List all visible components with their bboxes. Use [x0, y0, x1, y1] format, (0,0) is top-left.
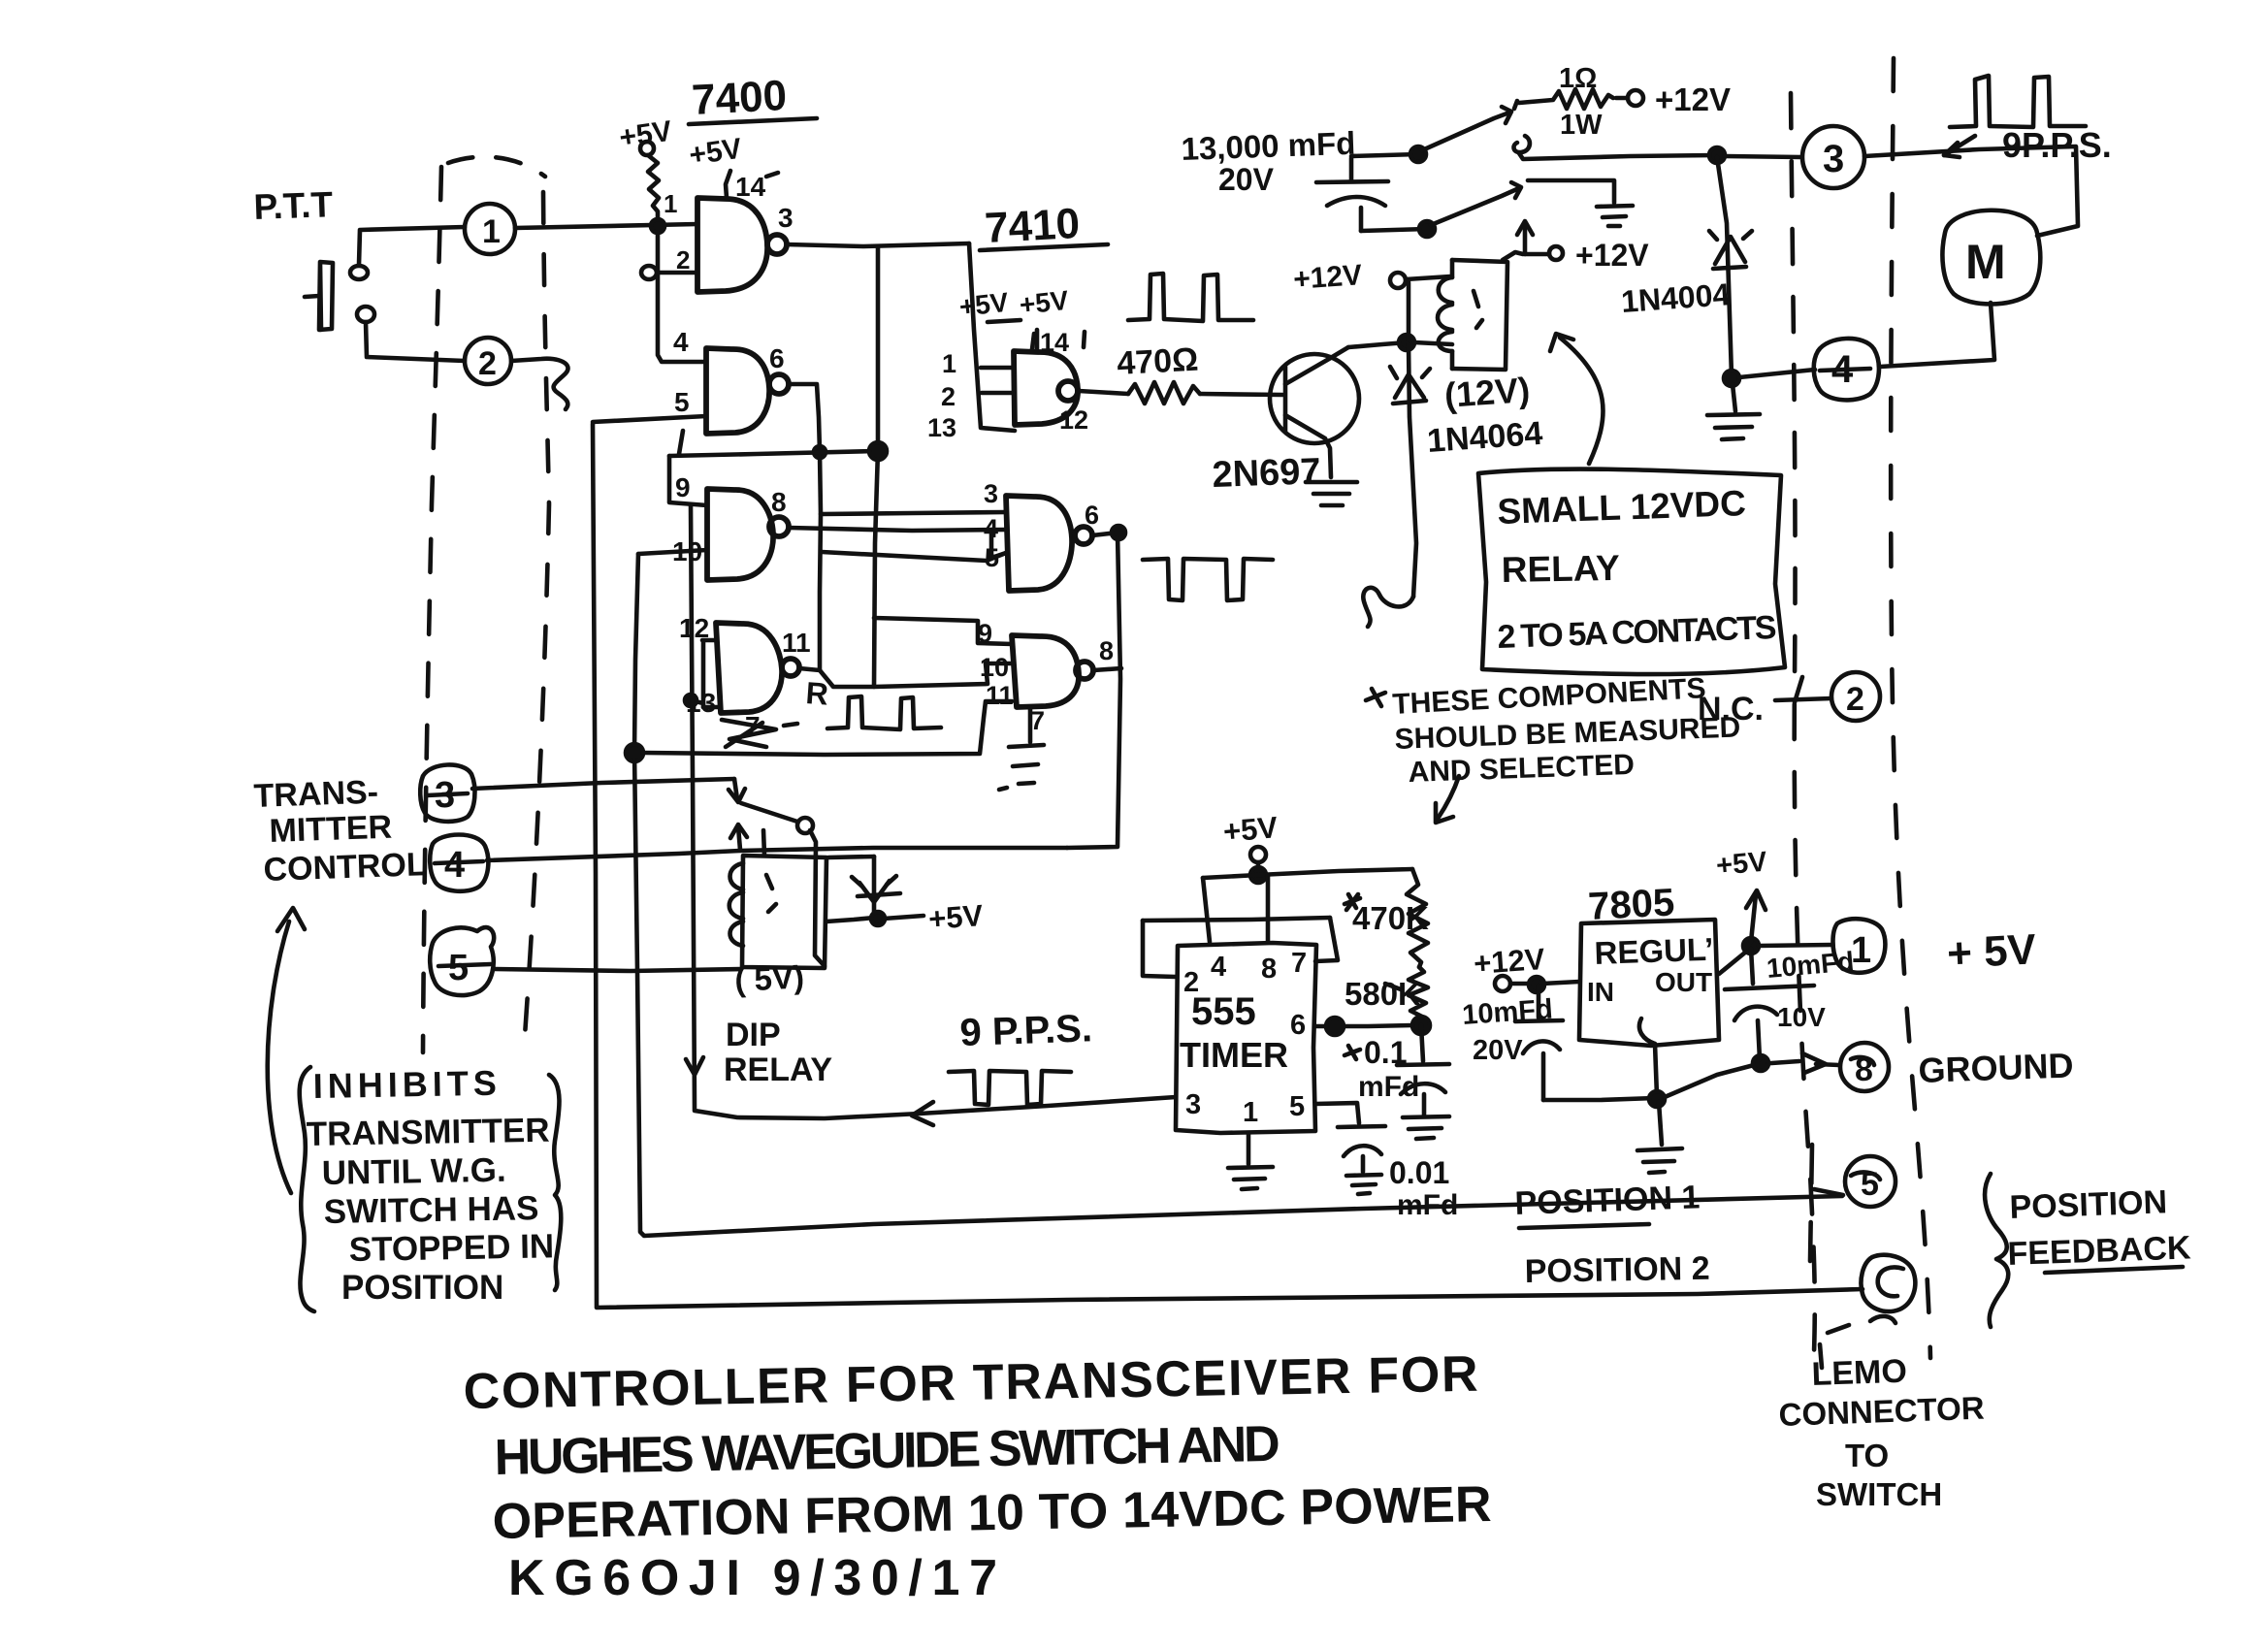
- svg-text:+5V: +5V: [927, 898, 985, 936]
- svg-text:SHOULD BE MEASURED: SHOULD BE MEASURED: [1394, 712, 1741, 756]
- INHIBITS note right brace: [549, 1075, 561, 1290]
- node pin1 junction: [651, 219, 664, 233]
- pin 5 wire and capacitor C5: [1315, 1103, 1385, 1194]
- wire circle3L to relay contact arrow: [472, 779, 745, 802]
- N.C. label and tick: [1698, 677, 1831, 727]
- svg-text:9: 9: [675, 472, 691, 502]
- coil bottom wire to node: [1414, 342, 1452, 344]
- POSITION 2 label: [1524, 1250, 1709, 1290]
- pin 11 output label: [782, 628, 811, 658]
- svg-text:POSITION 1: POSITION 1: [1514, 1179, 1701, 1222]
- svg-text:10mFd: 10mFd: [1461, 994, 1553, 1031]
- 9 P.P.S. label mid: [959, 1007, 1093, 1054]
- pin 6 output label: [769, 343, 785, 373]
- vertical A-out junction branch down: [869, 247, 887, 687]
- pin 10 label and lead: [638, 536, 707, 566]
- U2C output wire: [1093, 668, 1121, 670]
- svg-text:+5V: +5V: [617, 115, 673, 154]
- D input bracket: [685, 640, 719, 707]
- U2B pin labels: [984, 479, 1099, 572]
- wire dot to G pin 11: [643, 701, 1012, 755]
- 7410 label: [980, 200, 1108, 252]
- title line 1: [463, 1346, 1478, 1420]
- svg-text:4: 4: [673, 327, 689, 357]
- U1B output wire down to U2 pin3: [789, 384, 1006, 514]
- svg-text:8: 8: [1099, 636, 1114, 665]
- relay coil K1 (12V): [1438, 252, 1523, 370]
- connector pin circle 1 (right): [1833, 919, 1886, 973]
- resistor R4 470K: [1407, 869, 1428, 967]
- resistor R2 470ohm: [1128, 382, 1200, 404]
- top wire pins 4 8 to 470K: [1203, 869, 1412, 942]
- svg-text:8: 8: [771, 487, 787, 517]
- svg-text:POSITION: POSITION: [341, 1269, 503, 1307]
- wire circle5L to DIP relay coil bottom: [495, 969, 741, 971]
- 555 TIMER text: [1180, 990, 1288, 1075]
- svg-text:11: 11: [986, 681, 1014, 710]
- svg-text:( 5V): ( 5V): [733, 958, 804, 998]
- pushbutton switch S1: [305, 262, 374, 330]
- motor M1: [1942, 210, 2040, 305]
- svg-text:+5V: +5V: [687, 133, 743, 172]
- TRANS- MITTER CONTROL labels: [253, 774, 427, 889]
- left connector dashed top cap: [448, 157, 545, 177]
- connector pin circle 2 (left): [465, 338, 511, 384]
- 2N697 label: [1212, 451, 1321, 496]
- P.T.T label: [253, 184, 334, 227]
- INHIBITS note left brace: [300, 1067, 314, 1311]
- nand gate U2B (7410): [1006, 496, 1092, 591]
- svg-text:3: 3: [1185, 1089, 1201, 1120]
- mid pulse waveform: [1128, 274, 1253, 321]
- relay arm DIP: [741, 803, 813, 833]
- junction dot ground cap: [1753, 1055, 1768, 1071]
- svg-text:13,000 mFd: 13,000 mFd: [1181, 125, 1356, 167]
- wire C pin9 bracket to A-output node: [669, 451, 876, 505]
- svg-text:6: 6: [1085, 501, 1099, 530]
- svg-text:TO: TO: [1845, 1438, 1889, 1473]
- wire circle4L along y876 to U2B output vertical: [487, 848, 1067, 860]
- direction arrow on vertical: [686, 1057, 703, 1075]
- connector pin circle 4 (left): [430, 835, 488, 891]
- regulator U4 7805 box: [1579, 920, 1719, 1046]
- wire to connector 3: [1725, 156, 1801, 157]
- svg-text:+12V: +12V: [1292, 259, 1363, 296]
- 9 P.P.S. waveform top right: [1950, 76, 2086, 127]
- svg-text:mFd: mFd: [1397, 1189, 1458, 1221]
- ground wire to circle 8: [1665, 1053, 1839, 1097]
- svg-text:9: 9: [978, 619, 992, 648]
- right connector dashed line b: [1891, 58, 1930, 1358]
- U2B pin5 bracket: [991, 530, 1006, 558]
- svg-text:3: 3: [778, 203, 794, 233]
- dashes near circle 5 6: [1810, 1145, 1812, 1261]
- svg-text:+12V: +12V: [1655, 81, 1731, 117]
- wire arm pivot down right side of coil: [810, 830, 825, 966]
- svg-text:9 P.P.S.: 9 P.P.S.: [959, 1007, 1093, 1054]
- REGUL OUT IN texts: [1587, 931, 1714, 1007]
- pulse waveform near U1D: [827, 696, 941, 729]
- pin 1 ground: [1228, 1133, 1273, 1189]
- POSITION FEEDBACK labels: [2007, 1183, 2192, 1273]
- svg-text:INHIBITS: INHIBITS: [312, 1063, 502, 1106]
- svg-text:5: 5: [1289, 1091, 1305, 1122]
- svg-text:12: 12: [1059, 405, 1088, 435]
- U2C pin7 ground: [999, 706, 1045, 790]
- svg-text:6: 6: [1290, 1010, 1306, 1041]
- svg-text:14: 14: [735, 172, 766, 202]
- resistor R1 pull-up: [648, 155, 659, 221]
- arrow note to control: [268, 908, 305, 1193]
- svg-text:M: M: [1965, 235, 2006, 289]
- +5V big label: [1946, 925, 2038, 978]
- U2A output wire: [1079, 391, 1128, 394]
- svg-text:5: 5: [674, 387, 690, 417]
- connector pin circle 4 (right): [1814, 339, 1879, 400]
- pin 1 tick: [664, 189, 677, 218]
- connector pin circle 8 (right): [1840, 1043, 1889, 1091]
- svg-text:+5V: +5V: [1018, 285, 1070, 320]
- junction dot 555 vcc: [1250, 867, 1266, 883]
- arrow into circle 5: [1814, 1189, 1843, 1195]
- wire squiggle after pin 2: [511, 359, 567, 409]
- svg-text:+5V: +5V: [1222, 810, 1280, 849]
- svg-text:0.01: 0.01: [1389, 1155, 1449, 1190]
- pulse waveform mid (inverted): [949, 1071, 1071, 1105]
- 1 ohm 1W labels: [1559, 63, 1603, 141]
- nand gate U1B: [706, 348, 789, 434]
- wire diode node to connector 4: [1739, 370, 1815, 377]
- svg-text:MITTER: MITTER: [269, 809, 393, 850]
- connector pin circle 3 (right): [1802, 126, 1864, 188]
- svg-text:OPERATION FROM 10 TO 14VDC POW: OPERATION FROM 10 TO 14VDC POWER: [492, 1476, 1492, 1550]
- title line 3: [492, 1476, 1492, 1550]
- transistor Q1 2N697: [1270, 347, 1359, 477]
- pin 5 label and lead: [593, 387, 706, 454]
- pin 8 output label: [771, 487, 787, 517]
- svg-text:13: 13: [927, 413, 956, 442]
- svg-text:+5V: +5V: [1715, 846, 1769, 882]
- capacitor C4 0.1 mFd: [1397, 1025, 1449, 1139]
- +5V at diode bottom: [826, 898, 985, 936]
- svg-text:RELAY: RELAY: [724, 1051, 832, 1088]
- 7805 label: [1587, 881, 1675, 928]
- junction blob on B output vertical: [814, 446, 826, 458]
- svg-text:2: 2: [478, 345, 497, 382]
- 7400 label: [689, 72, 817, 124]
- svg-text:1: 1: [1243, 1097, 1258, 1128]
- +12V terminal after 1 ohm: [1616, 81, 1731, 117]
- title line 4: [508, 1550, 997, 1606]
- wire 555 pin3 to U1C pin9 vertical: [691, 505, 1176, 1118]
- +5V arrow above out: [1715, 846, 1769, 942]
- svg-text:RELAY: RELAY: [1501, 548, 1620, 590]
- diode D1 1N4004 column: [1709, 157, 1752, 376]
- svg-text:STOPPED IN: STOPPED IN: [348, 1227, 554, 1269]
- pulse waveform right of U2B: [1143, 559, 1273, 600]
- U2B output wire down: [1067, 526, 1125, 848]
- connector pin circle 2 (right): [1831, 672, 1880, 721]
- wire cap bottom to arm2 pivot: [1361, 229, 1427, 231]
- svg-text:CONTROL: CONTROL: [263, 846, 427, 889]
- diode LED across coil: [828, 857, 900, 916]
- connector pin circle 5 (left): [430, 927, 494, 995]
- arm 2 upper fixed contact to ground: [1528, 180, 1633, 226]
- +5V supply (pull-up): [617, 115, 673, 155]
- svg-text:+12V: +12V: [1575, 238, 1649, 273]
- DIP RELAY label: [724, 1017, 832, 1088]
- arrow up to relay arm: [730, 824, 747, 850]
- svg-text:SWITCH HAS: SWITCH HAS: [323, 1189, 538, 1231]
- capacitor C6 10mFd 20V: [1515, 986, 1563, 1100]
- +12V coil feed: [1292, 259, 1450, 340]
- INHIBITS note text: [306, 1063, 554, 1307]
- resistor R3 1 ohm: [1519, 89, 1613, 109]
- svg-text:2N697: 2N697: [1212, 451, 1321, 496]
- svg-text:2: 2: [941, 382, 956, 411]
- svg-text:CONNECTOR: CONNECTOR: [1778, 1390, 1985, 1433]
- svg-text:20V: 20V: [1473, 1035, 1523, 1066]
- svg-text:4: 4: [1211, 952, 1226, 983]
- svg-text:+5V: +5V: [957, 287, 1010, 322]
- direction arrow on motor wire: [1944, 136, 1975, 157]
- svg-text:OUT: OUT: [1655, 967, 1712, 997]
- U2C pin labels: [978, 619, 1114, 710]
- end squiggle: [1363, 588, 1413, 627]
- svg-text:IN: IN: [1587, 977, 1614, 1007]
- svg-text:SWITCH: SWITCH: [1816, 1476, 1942, 1512]
- U1A output wire right: [787, 243, 969, 246]
- nand gate U1D: [716, 623, 799, 713]
- svg-text:AND SELECTED: AND SELECTED: [1408, 749, 1635, 789]
- wire switch bottom to connector pin 2: [366, 322, 465, 361]
- svg-text:LEMO: LEMO: [1811, 1353, 1907, 1393]
- svg-text:1: 1: [664, 189, 677, 218]
- 10mFd 10V labels: [1766, 946, 1856, 1032]
- wire out to circle 1: [1759, 945, 1831, 946]
- junction dot diode bottom: [1724, 371, 1739, 386]
- svg-text:7: 7: [1291, 948, 1307, 979]
- nand gate U2C (7410): [1012, 635, 1093, 707]
- svg-text:KG6OJI 9/30/17: KG6OJI 9/30/17: [508, 1550, 997, 1606]
- svg-text:REGUL’: REGUL’: [1594, 931, 1714, 971]
- svg-text:1W: 1W: [1560, 110, 1603, 141]
- svg-text:UNTIL W.G.: UNTIL W.G.: [321, 1151, 506, 1192]
- emitter ground: [1306, 482, 1357, 505]
- svg-text:HUGHES WAVEGUIDE SWITCH AND: HUGHES WAVEGUIDE SWITCH AND: [494, 1416, 1280, 1486]
- pins 12 13 labels: [679, 613, 716, 718]
- svg-text:7400: 7400: [691, 72, 788, 124]
- left connector dashed line a: [423, 167, 441, 1052]
- nand gate U2A: [1014, 351, 1078, 425]
- svg-text:470Ω: 470Ω: [1116, 341, 1199, 382]
- ground bus left of circle 8: [1543, 1098, 1655, 1100]
- F pin5 sloped feed: [822, 552, 1006, 561]
- GROUND label: [1918, 1045, 2074, 1090]
- svg-text:1N4004: 1N4004: [1620, 276, 1732, 319]
- vertical C pin10 to POSITION1 line: [634, 554, 1842, 1236]
- curved dashes below connector: [1820, 1316, 1895, 1368]
- left connector dashed line b: [524, 192, 549, 1050]
- nand gate U1C: [707, 489, 789, 580]
- U2A pin labels 1 2 13 12: [927, 349, 1088, 442]
- pin 7 ground scribble under U1D: [722, 711, 797, 747]
- junction dot 7805 in: [1529, 977, 1544, 992]
- junction dot out: [1743, 938, 1759, 954]
- +5V labels above U2: [957, 285, 1070, 322]
- wire switch top to connector pin 1: [359, 227, 465, 265]
- hook contact to motor line: [1514, 136, 1715, 159]
- small arrow below note: [1436, 776, 1459, 823]
- pin 3 output label: [778, 203, 794, 233]
- svg-text:+ 5V: + 5V: [1946, 925, 2038, 978]
- svg-text:11: 11: [782, 628, 811, 658]
- pin 2 lead with open circle: [641, 245, 697, 279]
- DIP relay coil K2: [729, 830, 826, 968]
- curved arrow note to relay coil: [1550, 334, 1603, 464]
- svg-text:P.T.T: P.T.T: [253, 184, 334, 227]
- 10mFd 20V labels: [1461, 994, 1553, 1066]
- svg-text:4: 4: [444, 845, 465, 886]
- svg-text:2 TO 5A CONTACTS: 2 TO 5A CONTACTS: [1497, 609, 1777, 656]
- svg-text:DIP: DIP: [726, 1017, 781, 1053]
- svg-text:6: 6: [769, 343, 785, 373]
- (12V) label: [1443, 370, 1532, 415]
- junction vertical x845 passes down to D-out: [820, 514, 821, 670]
- right connector dashed line a: [1791, 93, 1815, 1353]
- +5V above 555: [1222, 810, 1280, 873]
- 7805 gnd pin: [1639, 1018, 1657, 1096]
- svg-text:5: 5: [448, 948, 469, 988]
- junction dot gnd: [1649, 1091, 1665, 1107]
- 0.1 mFd label: [1345, 1035, 1419, 1103]
- connector pin circle 5 (right): [1845, 1156, 1895, 1207]
- pin 14 label: [735, 172, 778, 202]
- 580K pot label: [1345, 976, 1421, 1012]
- svg-text:mFd: mFd: [1358, 1071, 1419, 1103]
- svg-text:SMALL 12VDC: SMALL 12VDC: [1497, 483, 1747, 532]
- stub to G pin 9: [874, 618, 1013, 644]
- connector pin circle 1 (left): [465, 204, 515, 254]
- svg-text:POSITION 2: POSITION 2: [1524, 1250, 1709, 1290]
- svg-text:10: 10: [980, 653, 1009, 682]
- svg-text:TRANSMITTER: TRANSMITTER: [306, 1112, 549, 1153]
- long feedback vertical to POSITION 2: [593, 424, 1863, 1308]
- LEMO CONNECTOR TO SWITCH label: [1778, 1353, 1985, 1512]
- 9 P.P.S. label top right: [2002, 125, 2112, 165]
- svg-text:555: 555: [1191, 990, 1256, 1033]
- +12V input: [1473, 942, 1579, 991]
- svg-text:1: 1: [1851, 930, 1871, 971]
- position feedback brace: [1985, 1174, 2008, 1327]
- svg-text:1: 1: [482, 213, 501, 250]
- 7805 out wire: [1719, 948, 1751, 974]
- ground symbol below 7805: [1637, 1102, 1682, 1173]
- pin 14 label U2: [1032, 328, 1085, 357]
- pin 9 label: [675, 472, 691, 502]
- timer U3 555 box: [1176, 943, 1316, 1133]
- SMALL 12VDC RELAY note box: [1478, 469, 1785, 675]
- svg-text:POSITION: POSITION: [2009, 1183, 2168, 1226]
- pin 4 label: [673, 327, 689, 357]
- 13,000 mFd label: [1181, 125, 1356, 197]
- svg-text:1N4064: 1N4064: [1426, 415, 1544, 460]
- wire cap top to relay arm1 pivot: [1351, 154, 1418, 156]
- +5V supply (U1 pin14): [687, 133, 743, 198]
- capacitor C1 13000mFd: [1316, 158, 1388, 231]
- (5V) label: [733, 958, 804, 998]
- POSITION 1 label: [1514, 1179, 1701, 1228]
- connector pin circle 3 (left): [420, 764, 474, 821]
- svg-text:TIMER: TIMER: [1180, 1035, 1288, 1075]
- U1D output wire to y708 bus: [799, 663, 1013, 687]
- vertical A-out to E inputs: [969, 243, 1015, 431]
- svg-text:0.1: 0.1: [1364, 1035, 1407, 1070]
- wire pin2 down to U1B pin4: [658, 233, 706, 362]
- R glyph annotation: [805, 675, 830, 712]
- 0.01 mFd label: [1389, 1155, 1458, 1221]
- 555 pin labels: [1183, 948, 1307, 1128]
- diode D2 1N4004 vertical: [1390, 344, 1430, 597]
- svg-text:TRANS-: TRANS-: [253, 774, 379, 815]
- resistor R5 580K: [1409, 967, 1428, 1024]
- connector pin circle 6 (right): [1861, 1255, 1915, 1311]
- 1N4004 label: [1620, 276, 1732, 319]
- relay contact arm 1: [1410, 101, 1517, 162]
- svg-text:8: 8: [1261, 954, 1277, 985]
- svg-text:GROUND: GROUND: [1918, 1045, 2074, 1090]
- left bracket pins 2 7: [1143, 918, 1338, 977]
- svg-text:1Ω: 1Ω: [1559, 63, 1597, 94]
- svg-text:2: 2: [676, 245, 690, 275]
- svg-text:9P.P.S.: 9P.P.S.: [2002, 125, 2112, 165]
- wire motor to connector 4: [1880, 303, 1994, 367]
- svg-text:1: 1: [942, 349, 956, 378]
- star and 470K label: [1345, 894, 1429, 936]
- svg-text:20V: 20V: [1218, 162, 1275, 197]
- junction dot motor line: [1709, 147, 1725, 163]
- junction dot pot bottom: [1412, 1017, 1430, 1034]
- direction arrow on 555 wire: [912, 1102, 933, 1125]
- capacitor C7 10mFd 10V: [1725, 949, 1814, 1059]
- 1N4064 label: [1426, 415, 1544, 460]
- svg-text:3: 3: [984, 479, 998, 508]
- svg-text:3: 3: [1823, 138, 1844, 180]
- wire circle3 to motor: [1864, 146, 2078, 236]
- pin 6 wire to pot bottom: [1315, 1018, 1412, 1035]
- wire pin1 to gate U1A input: [515, 224, 697, 228]
- svg-text:CONTROLLER FOR TRANSCEIVER FOR: CONTROLLER FOR TRANSCEIVER FOR: [463, 1346, 1478, 1420]
- ground below diode: [1707, 384, 1760, 439]
- svg-text:(12V): (12V): [1443, 370, 1532, 415]
- relay contact arm 2: [1419, 182, 1521, 237]
- title line 2: [494, 1416, 1280, 1486]
- 470 ohm label: [1116, 341, 1199, 382]
- nand gate U1A: [697, 198, 787, 292]
- collector wire to coil node: [1348, 335, 1414, 350]
- THESE COMPONENTS note: [1366, 672, 1741, 789]
- U1C output wire to U2B pin4: [789, 528, 1006, 531]
- junction dot C pin10 net: [626, 744, 643, 761]
- svg-text:2: 2: [1846, 681, 1864, 718]
- wire resistor to Q1 base: [1200, 394, 1282, 395]
- +12V lower fixed contact: [1517, 221, 1649, 273]
